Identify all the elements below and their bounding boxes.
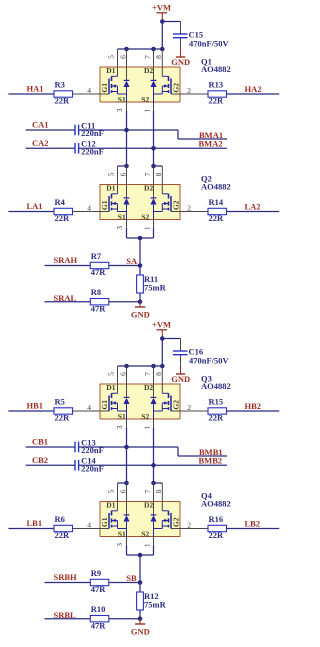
svg-text:3: 3: [115, 543, 124, 547]
svg-text:2: 2: [187, 86, 191, 95]
svg-text:D2: D2: [144, 501, 153, 510]
svg-text:3: 3: [115, 108, 124, 112]
svg-text:6: 6: [118, 489, 127, 493]
svg-text:HB2: HB2: [245, 401, 262, 411]
svg-text:8: 8: [154, 55, 163, 59]
svg-text:R15: R15: [209, 397, 224, 407]
svg-text:S1: S1: [118, 412, 126, 421]
svg-text:8: 8: [154, 489, 163, 493]
svg-text:AO4882: AO4882: [201, 182, 231, 192]
svg-text:7: 7: [143, 372, 152, 376]
svg-text:AO4882: AO4882: [201, 64, 231, 74]
svg-text:R6: R6: [55, 514, 65, 524]
svg-text:CA1: CA1: [32, 120, 49, 130]
svg-text:47R: 47R: [91, 584, 107, 594]
svg-text:R8: R8: [91, 287, 101, 297]
svg-text:S1: S1: [118, 529, 126, 538]
svg-text:1: 1: [143, 426, 152, 430]
svg-text:47R: 47R: [91, 267, 107, 277]
svg-text:D2: D2: [144, 66, 153, 75]
svg-text:8: 8: [154, 172, 163, 176]
svg-text:G1: G1: [100, 517, 109, 527]
svg-text:47R: 47R: [91, 620, 107, 630]
svg-text:AO4882: AO4882: [201, 381, 231, 391]
svg-text:4: 4: [87, 203, 91, 212]
svg-text:D1: D1: [106, 66, 115, 75]
svg-text:3: 3: [115, 226, 124, 230]
svg-text:6: 6: [118, 55, 127, 59]
svg-text:+VM: +VM: [152, 320, 171, 330]
svg-text:R7: R7: [91, 251, 102, 261]
svg-text:LB2: LB2: [245, 519, 261, 529]
svg-text:HA2: HA2: [245, 84, 262, 94]
svg-text:1: 1: [143, 109, 152, 113]
svg-text:G1: G1: [100, 83, 109, 93]
svg-text:R4: R4: [55, 197, 66, 207]
svg-text:R14: R14: [209, 197, 224, 207]
svg-text:7: 7: [143, 172, 152, 176]
svg-text:LB1: LB1: [27, 518, 43, 528]
svg-text:R3: R3: [55, 80, 65, 90]
svg-text:S2: S2: [141, 212, 149, 221]
svg-text:R10: R10: [91, 604, 106, 614]
svg-text:22R: 22R: [209, 96, 225, 106]
svg-text:3: 3: [115, 425, 124, 429]
svg-text:5: 5: [107, 489, 116, 493]
svg-text:4: 4: [87, 403, 91, 412]
svg-text:BMA2: BMA2: [199, 139, 223, 149]
svg-text:AO4882: AO4882: [201, 499, 231, 509]
svg-text:22R: 22R: [55, 96, 71, 106]
svg-text:22R: 22R: [55, 530, 71, 540]
svg-text:SRBL: SRBL: [54, 610, 77, 620]
svg-text:R5: R5: [55, 397, 65, 407]
svg-text:SB: SB: [126, 573, 137, 583]
svg-text:GND: GND: [171, 374, 190, 384]
svg-text:4: 4: [87, 86, 91, 95]
svg-text:22R: 22R: [209, 530, 225, 540]
svg-text:5: 5: [107, 172, 116, 176]
svg-text:HB1: HB1: [27, 401, 44, 411]
svg-text:22R: 22R: [209, 413, 225, 423]
svg-text:G2: G2: [171, 400, 180, 410]
svg-text:470nF/50V: 470nF/50V: [189, 355, 230, 365]
svg-text:HA1: HA1: [27, 84, 44, 94]
svg-text:G2: G2: [171, 517, 180, 527]
svg-text:2: 2: [187, 403, 191, 412]
svg-text:1: 1: [143, 226, 152, 230]
svg-text:G1: G1: [100, 400, 109, 410]
svg-text:47R: 47R: [91, 303, 107, 313]
svg-text:4: 4: [87, 520, 91, 529]
svg-text:GND: GND: [131, 627, 150, 637]
svg-text:6: 6: [118, 372, 127, 376]
svg-text:D1: D1: [106, 501, 115, 510]
svg-text:S1: S1: [118, 95, 126, 104]
svg-text:1: 1: [143, 543, 152, 547]
svg-text:7: 7: [143, 489, 152, 493]
svg-text:D1: D1: [106, 383, 115, 392]
svg-text:S1: S1: [118, 212, 126, 221]
svg-text:6: 6: [118, 172, 127, 176]
svg-text:SRAL: SRAL: [54, 293, 77, 303]
svg-text:G2: G2: [171, 83, 180, 93]
svg-text:BMB2: BMB2: [199, 456, 223, 466]
svg-text:D1: D1: [106, 184, 115, 193]
svg-text:S2: S2: [141, 412, 149, 421]
svg-text:G2: G2: [171, 200, 180, 210]
svg-text:GND: GND: [171, 57, 190, 67]
svg-text:22R: 22R: [55, 213, 71, 223]
svg-text:2: 2: [187, 520, 191, 529]
svg-text:75mR: 75mR: [144, 599, 167, 609]
svg-text:CB1: CB1: [32, 437, 48, 447]
svg-text:GND: GND: [131, 310, 150, 320]
svg-text:G1: G1: [100, 200, 109, 210]
svg-text:5: 5: [107, 55, 116, 59]
svg-text:2: 2: [187, 203, 191, 212]
svg-text:+VM: +VM: [152, 3, 171, 13]
svg-text:470nF/50V: 470nF/50V: [189, 38, 230, 48]
svg-text:R13: R13: [209, 80, 224, 90]
svg-text:SA: SA: [126, 256, 138, 266]
svg-text:22R: 22R: [209, 213, 225, 223]
svg-text:LA2: LA2: [245, 202, 261, 212]
svg-text:LA1: LA1: [27, 201, 43, 211]
svg-text:CA2: CA2: [32, 138, 49, 148]
svg-text:8: 8: [154, 372, 163, 376]
svg-text:7: 7: [143, 55, 152, 59]
svg-text:5: 5: [107, 372, 116, 376]
svg-text:S2: S2: [141, 95, 149, 104]
svg-text:SRBH: SRBH: [54, 572, 78, 582]
svg-text:22R: 22R: [55, 413, 71, 423]
svg-text:S2: S2: [141, 529, 149, 538]
svg-text:R9: R9: [91, 568, 101, 578]
svg-text:CB2: CB2: [32, 455, 48, 465]
svg-text:75mR: 75mR: [144, 282, 167, 292]
svg-text:D2: D2: [144, 184, 153, 193]
svg-text:D2: D2: [144, 383, 153, 392]
svg-text:SRAH: SRAH: [54, 255, 78, 265]
svg-text:R16: R16: [209, 514, 224, 524]
